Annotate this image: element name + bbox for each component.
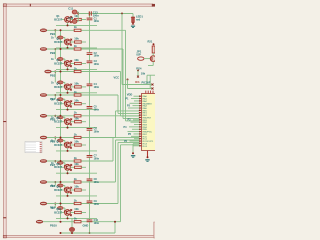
wire bottom run <box>61 232 116 234</box>
junction rail row 9 <box>60 203 62 205</box>
wire pin stub 11 <box>133 119 139 121</box>
resistor R3a <box>75 62 82 64</box>
junction X Q8 collector <box>70 164 72 166</box>
svg-text:ISP: ISP <box>137 53 142 57</box>
junction emitter 7 <box>67 150 69 152</box>
wire net 9 to pin <box>118 141 139 143</box>
transistor Q6 <box>65 119 71 125</box>
wire base drop 4 <box>64 82 66 85</box>
junction base feed 3 <box>54 48 56 50</box>
junction base feed 4 <box>54 71 56 73</box>
junction bottom rise top <box>114 221 116 223</box>
wire base drop 2 <box>64 38 66 41</box>
wire base drop 8 <box>64 163 66 166</box>
capacitor C7 <box>87 156 93 158</box>
transistor Q1 <box>65 17 71 23</box>
junction rail row 7 <box>60 160 62 162</box>
svg-text:BC337: BC337 <box>54 166 62 169</box>
junction rail row 2 <box>60 48 62 50</box>
resistor R4c base <box>57 81 63 84</box>
frame right band stub bottom <box>154 222 155 238</box>
junction emitter 1 <box>67 24 69 26</box>
junction base feed 10 <box>54 203 56 205</box>
svg-text:1k: 1k <box>74 111 77 115</box>
wire emitter row 9 <box>56 195 97 197</box>
svg-text:IC1: IC1 <box>135 80 140 84</box>
pin IC1 top 4 <box>152 91 154 94</box>
resistor R3c base <box>57 58 63 61</box>
wire R3a right lead <box>81 63 86 65</box>
junction rail row 1 <box>60 29 62 31</box>
junction base 6 <box>64 119 66 121</box>
wire pin stub 13 <box>134 124 139 126</box>
junction rail row 6 <box>60 137 62 139</box>
wire VCC into IC top <box>122 84 153 86</box>
wire R7c to base <box>63 140 65 142</box>
frame corner bottom-left <box>3 235 6 238</box>
wire base feed 8 <box>54 161 56 163</box>
pin IC1 left 3 <box>139 100 142 102</box>
wire emitter drop Q6 <box>67 125 69 128</box>
wire R9a right lead <box>81 189 86 191</box>
pin IC1 left 22 <box>139 145 142 147</box>
wire net 1 to pin <box>126 120 140 122</box>
pin IC1 left 16 <box>139 131 142 133</box>
junction base 5 <box>64 101 66 103</box>
resistor R9a <box>75 189 82 191</box>
wire emitter row 10 <box>56 217 97 219</box>
svg-text:BC337: BC337 <box>54 144 62 147</box>
resistor R8a <box>75 166 82 168</box>
wire emitter drop Q3 <box>67 66 69 69</box>
svg-text:VDD: VDD <box>127 92 133 96</box>
resistor R10b <box>74 221 81 223</box>
wire cap rail seg 7 <box>89 131 91 156</box>
svg-text:1k: 1k <box>74 177 77 181</box>
capacitor C1 <box>87 18 93 20</box>
wire net 9 vertical <box>117 142 119 203</box>
wire net row 6 <box>47 137 116 139</box>
junction PG4 top <box>137 70 139 72</box>
connector pad X10 <box>36 220 43 223</box>
wire drop a <box>146 75 148 84</box>
pin IC1 left 9 <box>139 114 142 116</box>
resistor R2c base <box>57 36 63 39</box>
junction X Q1 emitter <box>70 21 72 23</box>
wire base lead left Q5 <box>62 103 65 105</box>
wire emitter row 3 <box>56 68 97 70</box>
wire base drop 9 <box>64 186 66 189</box>
svg-text:GND: GND <box>83 224 89 228</box>
wire net row 2 <box>47 48 123 50</box>
pin IC1 left 19 <box>139 138 142 140</box>
svg-text:10k: 10k <box>74 162 79 166</box>
wire pin stub 12 <box>131 121 140 123</box>
wire base feed 10 <box>54 204 56 209</box>
pin IC1 top 3 <box>150 91 152 94</box>
svg-text:100n: 100n <box>94 130 100 133</box>
resistor R4b <box>74 94 81 96</box>
resistor R5a <box>75 103 82 105</box>
svg-text:1k: 1k <box>74 156 77 160</box>
wire VCC vertical to IC <box>121 14 123 85</box>
wire R22 drop <box>71 218 73 227</box>
wire pin stub 1 <box>134 95 140 97</box>
frame bottom band <box>3 235 155 238</box>
svg-text:PG4: PG4 <box>136 66 142 70</box>
junction R22 bottom <box>71 232 73 234</box>
wire cap rail seg 8 <box>89 158 91 179</box>
svg-text:1k: 1k <box>74 90 77 94</box>
svg-text:100n: 100n <box>94 157 100 160</box>
resistor R3b <box>74 70 81 72</box>
wire base lead right Q6 <box>70 121 74 123</box>
svg-text:C11: C11 <box>68 6 73 10</box>
wire R8a right lead <box>81 166 86 168</box>
junction base feed 9 <box>54 181 56 183</box>
connector pad X9 <box>40 202 47 205</box>
wire gnd drop <box>132 144 134 153</box>
wire net 1 vertical <box>125 30 127 121</box>
svg-text:PB9: PB9 <box>50 205 56 209</box>
wire R3c to base <box>63 58 65 60</box>
wire net row 3 <box>51 71 120 73</box>
wire net 7 to pin <box>113 137 139 139</box>
wire right bend <box>148 65 153 67</box>
wire emitter drop Q1 <box>67 22 69 25</box>
wire VCC top run <box>78 13 133 15</box>
junction X Q8 emitter <box>70 169 72 171</box>
ground left of IC <box>131 155 135 157</box>
wire Q11 emitter <box>152 62 154 66</box>
wire C12 stub <box>77 20 78 22</box>
junction X Q7 collector <box>70 142 72 144</box>
pin IC1 left 18 <box>139 135 142 137</box>
svg-text:PB10: PB10 <box>50 224 57 228</box>
capacitor C4 <box>87 84 93 86</box>
junction VCC mid <box>121 13 123 15</box>
wire net 2 vertical <box>122 49 124 118</box>
svg-text:PIC16F: PIC16F <box>142 81 151 85</box>
wire base lead left Q2 <box>62 41 65 43</box>
junction emitter 2 <box>67 47 69 49</box>
junction emitter 3 <box>67 68 69 70</box>
resistor R7a <box>75 144 82 146</box>
resistor R1a <box>75 18 82 20</box>
wire base feed 9 <box>54 182 56 186</box>
wire net 10 vertical <box>120 145 122 222</box>
wire JP1 to Q11 <box>144 58 150 60</box>
wire net row 4 <box>47 94 118 96</box>
junction X Q3 emitter <box>70 65 72 67</box>
svg-text:10k: 10k <box>74 98 79 102</box>
wire net 6 vertical <box>115 111 117 138</box>
capacitor C6 <box>87 129 93 131</box>
wire R4c to base <box>63 81 65 83</box>
wire base feed 2 <box>54 30 56 37</box>
wire cap rail seg 2 <box>89 20 91 52</box>
wire R4a right lead <box>81 86 86 88</box>
capacitor C3 <box>87 61 93 63</box>
junction emitter 8 <box>67 172 69 174</box>
junction X Q3 collector <box>70 60 72 62</box>
wire net row 5 <box>47 115 139 117</box>
junction R21 top <box>153 43 155 45</box>
ground VSS <box>145 159 149 161</box>
resistor R2a <box>75 41 82 43</box>
svg-text:PB2: PB2 <box>50 51 56 55</box>
wire pin stub 4 <box>130 102 140 104</box>
wire pin stub 3 <box>134 100 139 102</box>
junction X Q7 emitter <box>70 147 72 149</box>
wire base drop 7 <box>64 141 66 144</box>
wire net 3 to pin <box>121 115 140 117</box>
connector pad X5 <box>40 114 47 117</box>
wire base lead left Q9 <box>62 189 65 191</box>
wire cap rail bottom seg <box>89 222 91 233</box>
svg-text:100n: 100n <box>94 20 100 23</box>
wire R5c to base <box>63 98 65 100</box>
svg-text:10k: 10k <box>74 37 79 41</box>
junction X Q4 emitter <box>70 89 72 91</box>
wire net row 1 <box>47 29 126 31</box>
junction base feed 8 <box>54 160 56 162</box>
svg-text:10k: 10k <box>74 82 79 86</box>
wire emitter drop Q10 <box>67 215 69 218</box>
junction cap rail bottom <box>89 232 91 234</box>
svg-text:10k: 10k <box>74 58 79 62</box>
wire net row 8 <box>47 181 116 183</box>
wire net 4 vertical <box>117 95 119 113</box>
capacitor C5 <box>87 107 93 109</box>
frame tick left y121 <box>3 121 6 122</box>
connector pad X1 <box>40 29 47 32</box>
wire emitter drop Q5 <box>67 107 69 110</box>
wire pin stub 16 <box>128 131 140 133</box>
junction rail row 5 <box>60 115 62 117</box>
pin IC1 top 2 <box>147 91 149 94</box>
svg-text:1k: 1k <box>74 66 77 70</box>
pin IC1 left 14 <box>139 126 142 128</box>
ground below LED1 <box>131 26 135 28</box>
svg-text:100n: 100n <box>94 203 100 206</box>
wire R5a right lead <box>81 103 86 105</box>
wire C11 stub <box>77 11 78 13</box>
connector pad X7 <box>40 160 47 163</box>
wire vertical rail <box>60 31 62 220</box>
resistor R7b <box>74 160 81 162</box>
wire cap rail seg 10 <box>89 203 91 220</box>
wire base feed 4 <box>54 72 56 83</box>
junction X IC top a <box>152 84 154 86</box>
frame tick left y217 <box>3 217 6 218</box>
junction base 8 <box>64 165 66 167</box>
wire base feed 7 <box>54 138 56 141</box>
wire cap rail seg 5 <box>89 86 91 106</box>
capacitor C8 <box>87 179 93 181</box>
wire base lead right Q2 <box>70 41 74 43</box>
pin IC1 left 21 <box>139 142 142 144</box>
pin IC1 left 4 <box>139 102 142 104</box>
wire pin stub 15 <box>132 128 139 130</box>
frame left band <box>3 4 6 238</box>
junction rail row 4 <box>60 94 62 96</box>
connector pad X8 <box>40 181 47 184</box>
wire R10a right lead <box>81 212 86 214</box>
wire PG4 stub <box>137 71 139 77</box>
wire R7a right lead <box>81 144 86 146</box>
svg-text:R21: R21 <box>148 40 153 44</box>
wire R8c to base <box>63 162 65 164</box>
wire net 3 vertical <box>120 72 122 116</box>
resistor R7c base <box>57 139 63 142</box>
pin IC1 left 20 <box>139 140 142 142</box>
resistor R21 (clipped) <box>152 46 155 53</box>
pin IC1 left 8 <box>139 112 142 114</box>
frame top band <box>3 4 153 7</box>
svg-text:BC337: BC337 <box>54 41 62 44</box>
svg-text:PB3: PB3 <box>50 73 56 77</box>
resistor R9b <box>74 202 81 204</box>
junction caps <box>77 13 79 15</box>
junction X Q5 collector <box>70 100 72 102</box>
resistor R2b <box>74 48 81 50</box>
wire base lead right Q8 <box>70 166 74 168</box>
junction X Q2 emitter <box>70 44 72 46</box>
junction rail row 3 <box>60 71 62 73</box>
wire base lead left Q7 <box>62 144 65 146</box>
wire emitter drop Q9 <box>67 193 69 196</box>
wire base lead right Q9 <box>70 189 74 191</box>
transistor Q2 <box>65 39 71 45</box>
svg-text:PB8: PB8 <box>50 184 56 188</box>
wire emitter row 4 <box>56 92 97 94</box>
resistor R5b <box>74 115 81 117</box>
transistor Q8 <box>65 164 71 170</box>
wire gnd pin b <box>133 145 139 147</box>
junction X Q6 emitter <box>70 124 72 126</box>
pin IC1 left 13 <box>139 124 142 126</box>
wire net row 7 <box>47 160 113 162</box>
wire base feed 3 <box>54 49 56 59</box>
wire base drop 6 <box>64 117 66 120</box>
note table <box>25 142 42 153</box>
resistor R10c base <box>57 207 63 210</box>
resistor R9c base <box>57 184 63 187</box>
wire base feed 6 <box>54 116 56 117</box>
transistor Q9 <box>65 187 71 193</box>
IC1 body <box>142 94 156 151</box>
wire emitter drop Q2 <box>67 45 69 48</box>
wire emitter row 1 <box>56 24 97 26</box>
LED1 <box>131 17 135 22</box>
wire net row 9 <box>47 203 118 205</box>
junction X IC top b <box>152 88 154 90</box>
junction emitter 4 <box>67 92 69 94</box>
junction base feed 2 <box>54 29 56 31</box>
wire base lead left Q8 <box>62 166 65 168</box>
connector pad X4 <box>40 94 47 97</box>
wire base lead left Q4 <box>62 86 65 88</box>
junction bottom left <box>60 232 62 234</box>
resistor R6b <box>74 136 81 138</box>
svg-text:BC337: BC337 <box>54 18 62 21</box>
wire base lead right Q3 <box>70 63 74 65</box>
svg-text:100n: 100n <box>94 63 100 66</box>
wire pin stub 18 <box>131 135 139 137</box>
frame corner top-left <box>3 4 6 7</box>
frame top-right end mark <box>152 4 155 7</box>
wire emitter row 5 <box>56 109 97 111</box>
capacitor C9 <box>87 201 93 203</box>
wire R22 bottom <box>71 232 73 234</box>
wire net 8 vertical <box>115 140 117 182</box>
junction X Q6 collector <box>70 118 72 120</box>
wire base lead right Q4 <box>70 86 74 88</box>
svg-text:100n: 100n <box>94 55 100 58</box>
wire base lead right Q1 <box>70 19 74 21</box>
svg-text:100n: 100n <box>93 13 99 17</box>
wire aux vertical <box>127 80 129 89</box>
junction rail row 10 <box>60 221 62 223</box>
pin IC1 left 6 <box>139 107 142 109</box>
connector pad X6 <box>40 136 47 139</box>
svg-text:10k: 10k <box>141 72 146 76</box>
wire cap rail seg 1 <box>89 14 91 18</box>
svg-text:PB5: PB5 <box>50 118 56 122</box>
pin IC1 left 17 <box>139 133 142 135</box>
resistor R6a <box>75 121 82 123</box>
pin IC1 left 2 <box>139 98 142 100</box>
junction emitter 9 <box>67 195 69 197</box>
svg-text:VCC: VCC <box>114 75 120 79</box>
junction rail row 8 <box>60 181 62 183</box>
junction base feed 5 <box>54 94 56 96</box>
pin IC1 top 1 <box>145 91 147 94</box>
wire base drop 3 <box>64 59 66 62</box>
wire cap rail seg 4 <box>89 63 91 84</box>
wire base drop 10 <box>64 208 66 211</box>
resistor R6c base <box>57 116 63 119</box>
svg-text:1k: 1k <box>74 217 77 221</box>
pin IC1 left 12 <box>139 121 142 123</box>
svg-text:1k: 1k <box>74 198 77 202</box>
connector pad X3 <box>45 70 52 73</box>
svg-text:PB6: PB6 <box>50 139 56 143</box>
junction base feed 7 <box>54 137 56 139</box>
junction base 9 <box>64 188 66 190</box>
wire base lead left Q10 <box>62 212 65 214</box>
capacitor C10 <box>87 220 93 222</box>
junction emitter 10 <box>67 217 69 219</box>
wire pin stub 20 <box>130 140 140 142</box>
junction base 4 <box>64 85 66 87</box>
wire net 7 vertical <box>112 138 114 161</box>
wire base drop 5 <box>64 99 66 102</box>
junction base 10 <box>64 210 66 212</box>
junction cap rail top <box>89 13 91 15</box>
wire bottom rise <box>114 222 116 233</box>
wire aux into IC top <box>128 88 153 90</box>
junction X PG4 bottom <box>137 76 139 78</box>
junction base 2 <box>64 40 66 42</box>
transistor Q5 <box>65 101 71 107</box>
wire caps vertical link <box>77 12 79 22</box>
junction X Q9 emitter <box>70 192 72 194</box>
pin IC1 left 15 <box>139 128 142 130</box>
capacitor C2 <box>87 53 93 55</box>
pin IC1 left 5 <box>139 105 142 107</box>
